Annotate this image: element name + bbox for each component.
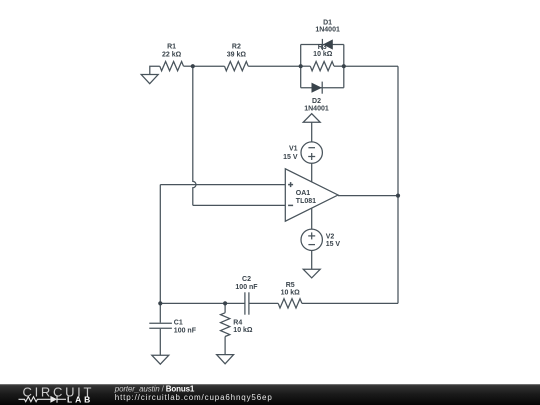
resistor R2	[225, 61, 249, 70]
svg-text:1N4001: 1N4001	[315, 26, 340, 33]
svg-text:http://circuitlab.com/cupa6hnq: http://circuitlab.com/cupa6hnqy56ep	[115, 393, 273, 402]
svg-text:R1: R1	[167, 44, 176, 51]
wire diode network bottom edge	[301, 87, 344, 89]
wire node A to R2	[193, 65, 225, 67]
wire R4 top lead	[224, 303, 226, 312]
svg-text:15 V: 15 V	[326, 241, 341, 248]
svg-text:C1: C1	[174, 320, 183, 327]
wire R4 to ground	[224, 337, 226, 355]
wire top to right rail	[344, 65, 398, 67]
wire R2 to diode network	[248, 65, 301, 67]
capacitor C2	[245, 292, 249, 314]
junction R4 node	[223, 301, 227, 305]
svg-text:OA1: OA1	[296, 190, 311, 197]
resistor R3	[301, 61, 344, 70]
wire bottom rail left	[160, 302, 245, 304]
junction C1 node	[158, 301, 162, 305]
label V2 value	[326, 234, 341, 249]
junction diode network right	[342, 64, 346, 68]
wire diode network right edge	[343, 45, 345, 88]
resistor R4	[221, 313, 230, 337]
wire V2 to ground	[311, 251, 313, 270]
wire C1 top lead	[159, 303, 161, 322]
svg-text:R4: R4	[233, 320, 242, 327]
label R4 value	[233, 320, 253, 335]
svg-text:1N4001: 1N4001	[304, 106, 329, 113]
svg-text:39 kΩ: 39 kΩ	[227, 51, 247, 58]
wire R5 to right rail	[302, 302, 398, 304]
label V1 value	[283, 146, 298, 161]
wire op-amp output	[338, 195, 398, 197]
wire left feedback vertical	[159, 185, 161, 304]
svg-text:R5: R5	[286, 282, 295, 289]
label C1 value	[174, 320, 197, 335]
wire R1 ground lead	[150, 66, 160, 74]
label OA1 value	[296, 190, 316, 205]
capacitor C1	[149, 323, 172, 328]
wire op-amp V- pin to V2	[311, 208, 313, 229]
wire non-inverting input horizontal	[160, 184, 285, 186]
wire right rail vertical	[397, 66, 399, 303]
svg-text:10 kΩ: 10 kΩ	[281, 290, 301, 297]
logo resistor-diode squiggle	[19, 396, 67, 403]
diode D2	[312, 82, 323, 94]
label R1 value	[162, 44, 182, 59]
svg-text:10 kΩ: 10 kΩ	[313, 51, 333, 58]
svg-text:R3: R3	[318, 44, 327, 51]
wire ground to V1	[311, 122, 313, 142]
wire inverting input horizontal	[193, 204, 285, 206]
ground (below C1)	[152, 355, 169, 364]
ground (below R4)	[217, 355, 234, 364]
svg-text:100 nF: 100 nF	[235, 284, 258, 291]
label R2 value	[227, 44, 247, 59]
svg-text:C2: C2	[242, 276, 251, 283]
svg-text:100 nF: 100 nF	[174, 328, 197, 335]
svg-text:R2: R2	[232, 44, 241, 51]
ground (below V2)	[303, 269, 320, 278]
resistor R5	[278, 299, 302, 308]
svg-text:TL081: TL081	[296, 198, 316, 205]
diode D1	[322, 39, 332, 50]
svg-text:15 V: 15 V	[283, 154, 298, 161]
svg-text:LAB: LAB	[67, 395, 93, 405]
wire R1 to node A	[184, 65, 193, 67]
svg-text:V2: V2	[326, 234, 335, 241]
wire C2 to R5	[249, 302, 278, 304]
svg-text:22 kΩ: 22 kΩ	[162, 51, 182, 58]
voltage source V2	[301, 229, 322, 250]
svg-text:D2: D2	[312, 98, 321, 105]
junction node A (R1/R2/inverting)	[191, 64, 195, 68]
wire C1 to ground	[159, 329, 161, 355]
voltage source V1	[301, 142, 322, 163]
label R5 value	[281, 282, 301, 297]
label D1 value	[315, 20, 340, 34]
wire diode network left edge	[300, 45, 302, 88]
op-amp OA1	[285, 169, 338, 221]
svg-text:V1: V1	[289, 146, 298, 153]
wire V1 to op-amp V+ pin	[311, 163, 313, 182]
junction output node	[396, 194, 400, 198]
svg-text:10 kΩ: 10 kΩ	[233, 327, 253, 334]
label C2 value	[235, 276, 258, 291]
label R3 value	[313, 44, 333, 58]
ground (at R1 left)	[141, 75, 158, 84]
ground (flipped, above V1)	[303, 114, 320, 123]
wire diode network top edge	[301, 44, 344, 46]
resistor R1	[160, 61, 184, 70]
wire inverting input vertical (from node A, hops over + wire)	[193, 66, 196, 205]
junction diode network left	[299, 64, 303, 68]
label D2 value	[304, 98, 329, 113]
